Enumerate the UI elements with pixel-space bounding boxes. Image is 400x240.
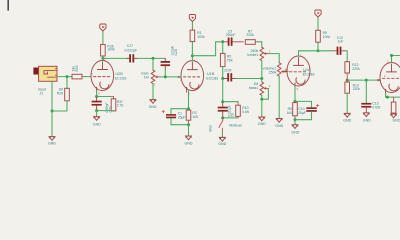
wire switch to ground [221,132,223,137]
wire C12 to R12 [346,51,347,62]
label 0.022uF C6 (vertical) [227,105,234,117]
svg-text:C6: C6 [231,113,235,117]
grid dots (decorative) [0,0,400,174]
svg-text:GND: GND [393,119,400,123]
label 1M R29 [57,88,63,96]
junction node U [386,96,389,99]
junction node C (plate node) [101,57,104,60]
svg-text:75K: 75K [227,59,234,63]
wire treble wiper to volume top [268,54,279,63]
svg-text:2.7K: 2.7K [117,104,125,108]
label R9 100k [323,31,331,39]
wire node Q to C12 [318,50,333,52]
ground (mid boost) [220,137,226,141]
power flag A+ (stage 1) [100,24,106,31]
wire treble bottom to node I [261,61,263,79]
label U1B ECC83 [206,72,218,80]
pin 7 (grid tube2) [178,76,181,79]
capacitor C28 100pF (bright cap) [161,58,171,77]
svg-text:ECC83: ECC83 [303,72,315,76]
triode U2B ECC83 [91,61,114,93]
svg-text:R30: R30 [75,65,79,71]
svg-text:.1uF: .1uF [337,40,344,44]
svg-text:1M: 1M [144,76,149,80]
svg-text:J1: J1 [40,91,44,95]
pin arrow (grid tube3) [285,70,288,73]
svg-text:treble1: treble1 [247,53,258,57]
ground (tube3 cathode) [292,125,298,129]
svg-text:SW1: SW1 [209,125,213,132]
wire node R to tube4 grid [347,79,380,81]
svg-text:0.001: 0.001 [372,105,381,109]
wire bass wiper to bottom [262,88,269,99]
resistor R14 (tube4 cathode) [391,97,396,114]
resistor R30 (grid stopper) [72,74,87,79]
label C3 250pF [226,29,236,37]
label R12 220k [352,63,360,71]
wire node H down to mid network [222,79,224,102]
resistor R12 220k (divider top) [345,62,350,80]
svg-text:GND: GND [275,124,283,128]
label 0.68uF C29 (vertical) [105,102,112,112]
label R8 1k5 [287,107,293,115]
capacitor C4 22nF (bass cap) [223,73,236,81]
wire cathode tube1 down [96,91,98,97]
wire node W to ground [294,120,296,125]
junction node D [152,57,155,60]
wire wiper to tube2 grid [160,76,178,78]
label C1 25uF [178,112,186,120]
label C10 25uF [298,107,306,115]
ground (tube4 cathode) [391,114,397,118]
junction node Q [317,49,320,52]
junction node P [260,98,263,101]
wire node F to node G (tone stack feed) [192,42,222,56]
capacitor C27 0.022uF (coupling) [127,54,138,62]
junction node B [51,110,54,113]
wire node P to ground [261,99,263,117]
svg-text:220k: 220k [246,33,254,37]
wire jack sleeve down [51,81,53,111]
junction node L [187,107,190,110]
wire node C to R36 [102,56,104,58]
wire plate tube3 to node Q [299,51,319,56]
svg-text:0.022µF: 0.022µF [124,48,137,52]
wire cathode tube4 [386,94,400,98]
wire R29 bottom to node B [52,101,67,111]
svg-text:GND: GND [363,119,371,123]
junction node J (mid network top) [221,100,224,103]
svg-text:bass1: bass1 [249,86,259,90]
connector J1 (input jack) [33,66,57,81]
wire R13 to ground [346,93,348,113]
svg-text:GND: GND [291,131,299,135]
potentiometer bass1 1M [260,79,268,96]
capacitor C10 25uF (cathode bypass 3) [295,101,319,119]
junction node N [95,95,98,98]
capacitor C1 25uF (cathode bypass) [162,109,189,125]
svg-text:100k: 100k [323,35,331,39]
value label 33k R30 (vertical) [72,65,80,71]
wire node O to ground [96,111,98,117]
svg-text:100k: 100k [107,48,115,52]
junction node A [66,75,69,78]
wire C4 to node I [236,78,262,80]
ground (volume) [276,119,282,123]
label Gain 1M [141,72,149,80]
wire volume bottom to ground [278,76,280,118]
junction node H (below R5) [221,77,224,80]
svg-text:ECC83: ECC83 [206,76,218,80]
label C27 0.022uF [124,44,137,52]
label volume1 250k [263,67,277,75]
label C12 .1uF [337,36,344,44]
wire C27 to node D [138,57,166,59]
label R2 1k5 [192,111,198,119]
power flag A+ (stage 3) [315,10,321,17]
wire cathode tube3 down [294,87,296,102]
svg-text:220k: 220k [353,87,361,91]
MAIN SCHEMATIC [33,10,400,146]
wire R9 to supply flag [317,17,319,28]
svg-text:GND: GND [258,122,266,126]
svg-text:ECC83: ECC83 [115,76,127,80]
resistor R1 100k (plate load 2) [190,28,195,56]
potentiometer Gain 1M [151,58,159,83]
label U2B ECC83 [115,72,127,80]
potentiometer volume1 250k [277,63,285,76]
ground (gain pot) [150,100,156,104]
junction node R (divider mid) [346,79,349,82]
triode U1B ECC83 [181,61,204,93]
svg-text:220k: 220k [352,67,360,71]
capacitor C6 0.022uF (mid cap) [218,102,228,118]
resistor R7 220k (series) [245,40,258,45]
label R13 220k [353,83,361,91]
triode U1A ECC83 [287,56,310,88]
svg-text:1k5: 1k5 [192,115,198,119]
svg-text:C27: C27 [127,44,133,48]
svg-text:R29: R29 [57,92,63,96]
wire bass bottom [261,95,263,99]
label C13 0.001 [372,102,381,110]
ground (bass) [259,117,265,121]
svg-text:Mid-Boost: Mid-Boost [229,124,242,128]
svg-text:25µF: 25µF [178,115,186,119]
wire plate up to node C [102,58,104,60]
capacitor C13 0.001 [361,80,371,113]
resistor R10 5.6K (parallel) [223,102,241,118]
wire jack tip to node A [57,76,67,78]
wire plate tube2 up [191,56,193,61]
wire gain pot to ground [152,84,154,100]
label Input J1 [38,87,46,95]
wire volume wiper to tube3 grid [286,71,288,73]
power flag A+ (stage 2) [189,15,195,22]
junction node O [95,109,98,112]
svg-text:GND: GND [149,105,157,109]
svg-text:25µF: 25µF [298,111,306,115]
capacitor C12 .1uF (coupling 3) [333,47,346,55]
svg-text:GND: GND [343,119,351,123]
ground (C13) [363,113,369,117]
svg-text:GND: GND [185,142,193,146]
junction node V (tube3 cathode) [294,100,297,103]
junction node M [187,123,190,126]
resistor R9 100k (plate load 3) [316,28,321,50]
capacitor C29 0.68uF (cathode bypass 1) [92,97,102,111]
wire node C to C27 [103,57,127,59]
svg-text:GND: GND [48,142,56,146]
wire plate tube4 up and right [392,56,400,63]
label R1 100k [197,31,205,39]
svg-text:100k: 100k [197,35,205,39]
junction node F (tube2 plate) [191,54,194,57]
svg-text:250pF: 250pF [226,33,236,37]
ground (tube2 cathode) [186,136,192,140]
label R7 220k [246,29,254,37]
resistor R36 100k (plate load) [101,43,106,57]
pin arrow (grid tube4) [378,79,381,82]
pin stub tube2 grid [177,76,181,78]
junction node T [390,54,393,57]
wire R30 to tube grid [84,76,92,78]
svg-text:C29: C29 [108,106,112,112]
junction node S (C13 tap) [365,79,368,82]
label R10 5.6K [242,106,250,114]
resistor R37 2.7K (cathode 1) [97,97,116,111]
label R5 75K [227,55,234,63]
ground (tube1 cathode) [94,117,100,121]
resistor R29 1M (grid leak) [65,77,70,101]
resistor R13 220k (divider bottom) [345,80,350,93]
label 1M bass1 [249,82,259,90]
wire cathode tube2 down [188,91,190,109]
resistor R8 1k5 (cathode 3) [293,101,298,119]
wire R1 to supply flag [191,22,193,29]
resistor R5 75K (slope) [220,42,225,79]
label 100pF C28 (vertical) [171,46,179,56]
capacitor C3 250pF (treble cap) [223,38,244,46]
junction node W [294,118,297,121]
potentiometer treble1 260k [260,47,268,60]
svg-text:250k: 250k [269,71,277,75]
junction node I [260,77,263,80]
junction node E (wiper/bright cap) [164,75,167,78]
ground (input) [49,137,55,141]
svg-text:1k5: 1k5 [287,111,293,115]
label U1A ECC83 [303,68,315,76]
wire R7 to treble pot [258,42,262,47]
wire node A to R30 [67,76,72,78]
label R36 100k [107,44,115,51]
label 260k treble1 [247,49,258,57]
wire node M to ground [188,125,190,136]
wire R36 to supply flag [102,31,104,43]
frame border segment top-left [7,0,9,11]
resistor R2 1k5 (cathode) [186,109,191,125]
junction node K (mid network bottom) [221,116,224,119]
svg-text:C28: C28 [174,49,178,55]
svg-text:5.6K: 5.6K [242,110,250,114]
svg-text:GND: GND [218,142,226,146]
svg-text:GND: GND [93,122,101,126]
svg-text:22nF: 22nF [224,69,232,73]
switch SW1 Mid-Boost [219,118,223,132]
label R37 2.7K [117,100,125,108]
wire node B to ground [51,111,53,137]
triode U2A ECC83 (right edge) [380,63,400,94]
ground (divider) [344,113,350,117]
junction node G [221,40,224,43]
